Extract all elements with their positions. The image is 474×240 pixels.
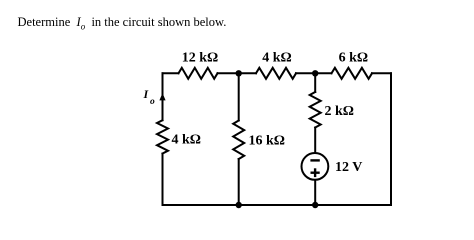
svg-text:4 kΩ: 4 kΩ xyxy=(172,133,202,148)
svg-text:o: o xyxy=(150,97,155,107)
svg-text:2 kΩ: 2 kΩ xyxy=(325,104,355,119)
svg-text:12 kΩ: 12 kΩ xyxy=(182,51,219,66)
svg-text:12 V: 12 V xyxy=(335,160,362,175)
svg-text:4 kΩ: 4 kΩ xyxy=(262,51,292,66)
svg-text:I: I xyxy=(143,87,150,101)
svg-text:6 kΩ: 6 kΩ xyxy=(339,51,369,66)
svg-text:16 kΩ: 16 kΩ xyxy=(249,134,286,149)
